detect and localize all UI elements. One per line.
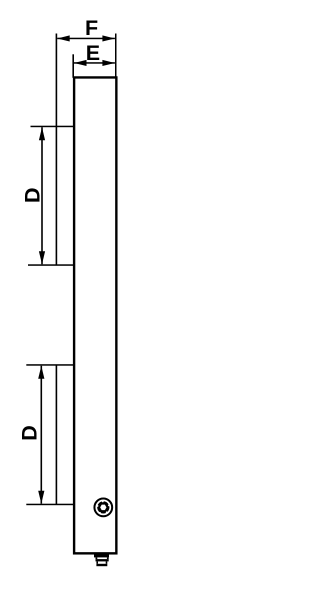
arrow D1 up <box>39 127 45 140</box>
drain plug mid bar <box>96 559 109 561</box>
extension line E left <box>72 54 74 78</box>
valve knurl notch 5 <box>106 511 108 513</box>
valve center hex socket <box>100 505 106 510</box>
dimension line D2 <box>41 366 43 504</box>
svg-text:D: D <box>21 187 45 203</box>
extension line D1 top <box>31 126 75 128</box>
svg-text:F: F <box>85 16 98 40</box>
extension line D1 bottom <box>28 264 74 266</box>
drain plug bottom cap <box>96 564 107 566</box>
bottom bracket edge <box>56 365 58 505</box>
svg-text:E: E <box>86 41 100 65</box>
arrow E left <box>74 60 87 66</box>
extension line D2 bottom <box>26 504 74 506</box>
radiator panel outline <box>74 77 116 553</box>
svg-text:D: D <box>18 425 42 441</box>
valve knurl notch 2 <box>102 500 104 502</box>
arrow F left <box>57 35 69 41</box>
extension line F/E right <box>115 34 117 79</box>
drain plug neck right wall <box>107 557 109 559</box>
arrow D1 down <box>39 251 45 264</box>
valve inner disc <box>97 501 109 513</box>
valve knurl notch 3 <box>97 505 99 507</box>
drain plug neck left wall <box>96 557 98 559</box>
drain plug flange <box>94 555 109 558</box>
dimension line D1 <box>41 127 43 264</box>
arrow E right <box>102 60 115 66</box>
dimension line F <box>57 38 115 40</box>
extension line F left / top bracket edge <box>56 34 58 266</box>
arrow D2 down <box>38 491 44 504</box>
valve knurl notch 1 <box>108 504 110 506</box>
drain plug lower left wall <box>96 561 98 563</box>
arrow F right <box>102 35 115 41</box>
drain plug lower right wall <box>106 561 108 563</box>
dimension line E <box>74 62 115 64</box>
valve outer ring <box>94 499 112 517</box>
valve knurl notch 4 <box>99 512 101 514</box>
arrow D2 up <box>38 366 44 379</box>
extension line D2 top <box>26 364 74 366</box>
